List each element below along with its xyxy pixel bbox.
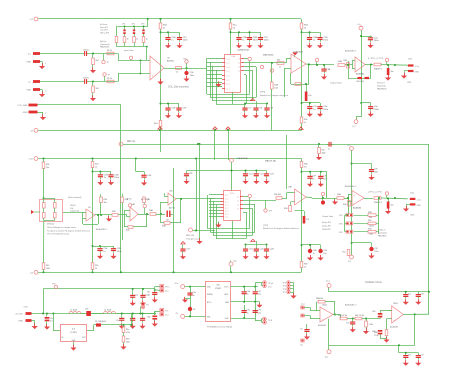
- svg-text:+Out: +Out: [415, 65, 420, 68]
- svg-text:R6A 10k: R6A 10k: [316, 297, 323, 300]
- svg-text:1u: 1u: [193, 295, 195, 297]
- svg-text:Output Gain: Output Gain: [330, 82, 343, 85]
- svg-text:C91: C91: [258, 291, 261, 293]
- svg-text:xx: xx: [237, 208, 239, 210]
- svg-text:ADA4084: ADA4084: [353, 207, 361, 210]
- svg-text:VIN-: VIN-: [207, 316, 211, 318]
- svg-text:xx_x: xx_x: [225, 207, 229, 209]
- svg-text:xx: xx: [237, 204, 239, 206]
- svg-text:[TP3]: [TP3]: [263, 225, 268, 227]
- svg-text:ADA4084-1: ADA4084-1: [96, 228, 108, 231]
- svg-text:100k: 100k: [46, 268, 50, 270]
- svg-text:R6b: R6b: [126, 339, 129, 341]
- svg-text:R5 1k: R5 1k: [107, 50, 112, 52]
- svg-text:2(on)-JP5: 2(on)-JP5: [322, 225, 332, 227]
- svg-text:R6B 97.6k: R6B 97.6k: [338, 315, 347, 317]
- svg-text:(Optional): (Optional): [377, 84, 386, 87]
- svg-text:R38: R38: [112, 211, 115, 213]
- svg-text:xx_x: xx_x: [225, 198, 229, 200]
- svg-text:GND: GND: [225, 302, 230, 304]
- svg-text:CN2: CN2: [410, 215, 415, 217]
- svg-text:C92: C92: [247, 310, 250, 312]
- svg-text:C5a: C5a: [50, 318, 53, 320]
- svg-text:1u: 1u: [313, 178, 315, 180]
- svg-text:(2-): (2-): [353, 126, 356, 128]
- svg-text:BYP+: BYP+: [207, 302, 212, 304]
- svg-text:R6?: R6?: [46, 265, 49, 267]
- svg-text:L1 10uH: L1 10uH: [70, 310, 78, 312]
- svg-text:10: 10: [304, 27, 306, 29]
- svg-text:U1B: U1B: [230, 193, 235, 195]
- svg-text:ADA4084-2: ADA4084-2: [345, 304, 357, 307]
- svg-text:REF (N): REF (N): [186, 235, 194, 237]
- svg-text:CLK_REF: CLK_REF: [18, 105, 29, 107]
- svg-text:100n: 100n: [117, 251, 123, 253]
- svg-text:xx: xx: [237, 200, 239, 202]
- svg-text:C7b: C7b: [421, 294, 424, 296]
- svg-text:C84 (1%): C84 (1%): [356, 81, 364, 83]
- svg-text:+Vs: +Vs: [357, 24, 361, 26]
- svg-text:C1F: C1F: [182, 108, 187, 110]
- svg-text:(1-): (1-): [300, 345, 303, 347]
- svg-text:C8c: C8c: [147, 292, 150, 294]
- svg-text:D1 CMDSH-3: D1 CMDSH-3: [95, 321, 106, 323]
- svg-text:R34: R34: [104, 199, 107, 201]
- svg-text:(Optional): (Optional): [100, 43, 110, 46]
- svg-text:COL_(Not mounted): COL_(Not mounted): [168, 86, 189, 89]
- svg-text:56k1: 56k1: [126, 341, 130, 343]
- svg-text:ADA4084-1: ADA4084-1: [345, 185, 357, 188]
- svg-text:+12-15V: +12-15V: [15, 314, 24, 316]
- svg-text:U4C: U4C: [169, 191, 173, 193]
- svg-text:1k: 1k: [127, 39, 129, 41]
- svg-text:BuiQ=+: BuiQ=+: [100, 41, 108, 43]
- svg-text:Offset Voltage for triangle wa: Offset Voltage for triangle wave.: [47, 226, 77, 229]
- svg-text:C7c: C7c: [300, 329, 303, 331]
- svg-text:AD8021: AD8021: [167, 59, 175, 62]
- svg-text:RvAC-O: RvAC-O: [378, 229, 386, 232]
- svg-text:C5e: C5e: [116, 320, 119, 322]
- svg-text:VIN+: VIN+: [207, 287, 211, 289]
- svg-text:2.2u: 2.2u: [258, 294, 262, 296]
- svg-text:(2+): (2+): [165, 314, 169, 316]
- svg-text:xx_x: xx_x: [226, 62, 230, 64]
- svg-text:GND: GND: [23, 112, 28, 114]
- svg-text:TP-B: TP-B: [268, 320, 273, 322]
- svg-text:ADA4084-1: ADA4084-1: [345, 50, 357, 53]
- svg-text:J: J: [45, 63, 46, 65]
- svg-text:ADA4084: ADA4084: [318, 324, 326, 327]
- svg-text:100n: 100n: [264, 40, 270, 42]
- svg-text:(2-): (2-): [348, 261, 351, 263]
- svg-text:OUT+: OUT+: [224, 287, 229, 289]
- svg-text:100n: 100n: [114, 177, 120, 179]
- svg-text:xx_x: xx_x: [225, 213, 229, 215]
- svg-text:R49: R49: [343, 204, 346, 206]
- svg-text:R2b: R2b: [304, 119, 307, 121]
- svg-text:R4A 49.9: R4A 49.9: [374, 68, 382, 71]
- svg-text:D2: D2: [193, 309, 195, 311]
- svg-text:GND: GND: [415, 72, 420, 74]
- svg-text:R5 1k: R5 1k: [107, 78, 112, 80]
- svg-text:PAD/M643: PAD/M643: [377, 87, 387, 90]
- svg-text:(2+): (2+): [326, 281, 330, 283]
- svg-text:R4C: R4C: [126, 230, 130, 232]
- svg-text:R5C: R5C: [368, 220, 372, 222]
- svg-text:(1%): (1%): [408, 59, 413, 61]
- svg-text:[VR(C)]: [VR(C)]: [47, 224, 54, 226]
- svg-text:xx_x: xx_x: [225, 210, 229, 212]
- svg-text:C1A 1u: C1A 1u: [83, 77, 89, 80]
- svg-text:U10: U10: [216, 285, 219, 287]
- svg-text:TP1a: TP1a: [183, 59, 187, 61]
- svg-text:2.2u: 2.2u: [258, 312, 262, 314]
- svg-text:xx_x: xx_x: [226, 70, 230, 72]
- svg-text:10u: 10u: [391, 205, 394, 207]
- svg-text:100n: 100n: [190, 75, 194, 77]
- svg-text:TPx: TPx: [165, 310, 168, 312]
- svg-text:TP7: TP7: [283, 292, 286, 294]
- svg-text:Output Gain: Output Gain: [322, 215, 334, 218]
- svg-text:JP2: JP2: [132, 24, 135, 26]
- svg-text:OUT: OUT: [82, 337, 86, 339]
- svg-text:R5D: R5D: [368, 228, 372, 230]
- svg-text:100k: 100k: [322, 152, 326, 154]
- svg-text:xx: xx: [238, 58, 240, 60]
- svg-text:xx_x: xx_x: [226, 83, 230, 85]
- svg-text:xx_x: xx_x: [225, 204, 229, 206]
- svg-text:MAX2K(B): MAX2K(B): [263, 54, 274, 57]
- svg-text:4.7u: 4.7u: [50, 321, 54, 323]
- svg-text:473k: 473k: [126, 332, 130, 334]
- svg-text:OUT-: OUT-: [225, 318, 230, 320]
- svg-text:+Out: +Out: [417, 199, 422, 202]
- svg-text:xx_x: xx_x: [225, 194, 229, 196]
- svg-text:GND: GND: [18, 321, 23, 323]
- svg-text:JP3: JP3: [141, 24, 144, 26]
- svg-text:100n: 100n: [374, 172, 378, 174]
- svg-text:1k: 1k: [279, 67, 281, 69]
- svg-text:0k07k: 0k07k: [369, 225, 374, 227]
- svg-text:C5c: C5c: [135, 295, 138, 297]
- svg-text:100n: 100n: [253, 40, 259, 42]
- svg-text:JP1: JP1: [122, 24, 125, 26]
- svg-text:AD7T2: AD7T2: [169, 207, 175, 210]
- svg-text:R39 4k5: R39 4k5: [274, 194, 281, 196]
- svg-text:+15v: +15v: [174, 283, 178, 285]
- svg-text:C9b: C9b: [247, 291, 250, 293]
- svg-text:C4c: C4c: [308, 95, 311, 97]
- svg-text:TP+A: TP+A: [268, 282, 274, 285]
- svg-text:1k: 1k: [304, 266, 306, 268]
- svg-text:C4A: C4A: [313, 36, 318, 39]
- svg-text:1k: 1k: [95, 268, 97, 270]
- svg-text:(2+): (2+): [268, 286, 272, 288]
- svg-text:+Vs: +Vs: [347, 145, 350, 147]
- svg-text:U1A: U1A: [231, 55, 236, 58]
- svg-text:-: -: [152, 61, 153, 64]
- svg-text:CN2: CN2: [407, 82, 412, 84]
- svg-text:R30: R30: [344, 60, 347, 62]
- svg-text:In-: In-: [28, 82, 31, 84]
- svg-text:GND: GND: [26, 90, 31, 92]
- svg-text:xx_x: xx_x: [226, 75, 230, 77]
- svg-text:10u: 10u: [391, 71, 394, 73]
- svg-text:(Optional): (Optional): [378, 231, 387, 234]
- svg-text:xx: xx: [237, 196, 239, 198]
- svg-text:Oscillator Circuit: Oscillator Circuit: [365, 281, 382, 284]
- svg-text:GND: GND: [417, 205, 422, 207]
- svg-text:1u: 1u: [313, 253, 315, 255]
- svg-text:Vbn=uP3: Vbn=uP3: [100, 32, 110, 34]
- svg-text:R4b: R4b: [277, 60, 280, 62]
- svg-text:POS&NEG LDO (LT3032): POS&NEG LDO (LT3032): [207, 327, 233, 329]
- svg-text:Un=uP1: Un=uP1: [100, 27, 109, 29]
- svg-text:1k: 1k: [95, 166, 97, 168]
- svg-text:1M: 1M: [95, 60, 98, 62]
- svg-text:Vs=uP2: Vs=uP2: [100, 30, 109, 32]
- svg-text:C2f: C2f: [306, 219, 309, 221]
- svg-text:1k: 1k: [146, 39, 148, 41]
- svg-text:C7d: C7d: [346, 323, 349, 325]
- svg-text:J: J: [45, 91, 46, 93]
- svg-text:IC5: IC5: [72, 329, 75, 331]
- svg-text:C2A: C2A: [242, 36, 247, 39]
- svg-text:C5A AD630A: C5A AD630A: [237, 49, 249, 52]
- svg-text:Monitor for 90 degree shifted: Monitor for 90 degree shifted reference: [263, 227, 300, 230]
- svg-text:500: 500: [369, 217, 372, 219]
- svg-text:1M: 1M: [95, 88, 98, 90]
- svg-text:R4c: R4c: [322, 150, 325, 152]
- svg-text:xx: xx: [238, 70, 240, 72]
- svg-text:100k-JP6: 100k-JP6: [322, 229, 331, 231]
- svg-text:100n: 100n: [374, 251, 378, 253]
- svg-text:TP3: TP3: [269, 211, 272, 213]
- svg-text:xx_x: xx_x: [226, 88, 230, 90]
- svg-text:(2+): (2+): [165, 291, 169, 293]
- svg-text:R6a: R6a: [126, 329, 129, 331]
- svg-text:Triangle wave: Triangle wave: [186, 238, 200, 241]
- svg-text:L2 10uH: L2 10uH: [104, 310, 112, 312]
- svg-text:TP6: TP6: [52, 284, 55, 286]
- svg-text:100k: 100k: [274, 87, 278, 89]
- svg-text:REF (A): REF (A): [127, 140, 136, 143]
- svg-text:10: 10: [233, 27, 235, 29]
- svg-text:TP5: TP5: [283, 286, 286, 288]
- svg-text:TP1, TP2 (Monitor pins): TP1, TP2 (Monitor pins): [47, 233, 69, 236]
- svg-text:MAX2K (B): MAX2K (B): [265, 160, 276, 163]
- svg-text:1u: 1u: [328, 149, 330, 151]
- svg-text:1k: 1k: [304, 122, 306, 124]
- svg-text:1u: 1u: [148, 294, 150, 296]
- svg-text:C5A AD630A: C5A AD630A: [237, 157, 249, 160]
- svg-text:GND: GND: [26, 62, 31, 64]
- svg-text:10k: 10k: [104, 202, 107, 204]
- svg-text:20k: 20k: [46, 167, 49, 169]
- svg-text:SET+: SET+: [224, 294, 229, 296]
- svg-text:100k: 100k: [369, 234, 373, 236]
- svg-text:(L-TP2) - (L-TP1): (L-TP2) - (L-TP1): [368, 58, 384, 60]
- svg-text:1k: 1k: [136, 39, 138, 41]
- svg-text:R5c: R5c: [343, 252, 346, 254]
- svg-text:ADA4084: ADA4084: [390, 326, 398, 329]
- svg-text:1k: 1k: [176, 72, 178, 74]
- svg-text:xx_x: xx_x: [225, 201, 229, 203]
- svg-text:U11B: U11B: [393, 303, 398, 305]
- svg-text:U11A: U11A: [322, 304, 327, 307]
- svg-text:U4: U4: [88, 207, 90, 209]
- svg-text:xx_x: xx_x: [226, 66, 230, 68]
- svg-text:C93: C93: [258, 310, 261, 312]
- svg-text:R1d: R1d: [154, 123, 157, 125]
- svg-text:C2b: C2b: [190, 72, 193, 74]
- svg-text:C7e: C7e: [408, 355, 411, 357]
- svg-text:LT3032: LT3032: [215, 288, 221, 290]
- svg-text:1%: 1%: [304, 166, 307, 168]
- svg-text:(2-): (2-): [325, 357, 328, 359]
- svg-text:SHDN+: SHDN+: [207, 294, 213, 296]
- svg-text:J: J: [45, 113, 46, 115]
- svg-text:R5b: R5b: [95, 265, 98, 267]
- svg-text:C8d: C8d: [147, 317, 150, 319]
- svg-text:(1+): (1+): [301, 304, 305, 306]
- svg-text:10n: 10n: [166, 220, 169, 222]
- svg-text:xx_x: xx_x: [226, 58, 230, 60]
- svg-text:TP4: TP4: [283, 283, 286, 285]
- svg-text:xx_x: xx_x: [226, 79, 230, 81]
- svg-text:R5A 49.9: R5A 49.9: [374, 201, 382, 204]
- svg-text:(-TP2) - (+TP2): (-TP2) - (+TP2): [368, 192, 382, 194]
- svg-text:100n: 100n: [323, 109, 329, 111]
- svg-text:10u: 10u: [323, 253, 326, 255]
- svg-text:1u: 1u: [247, 294, 249, 296]
- svg-text:100n: 100n: [374, 40, 380, 42]
- svg-text:xx: xx: [238, 62, 240, 64]
- svg-text:1.00k: 1.00k: [369, 324, 373, 326]
- svg-text:R4b: R4b: [304, 164, 307, 166]
- svg-text:C1A 1u: C1A 1u: [83, 49, 89, 52]
- svg-text:-: -: [293, 57, 294, 60]
- svg-text:TP6: TP6: [283, 289, 286, 291]
- svg-text:Input Gain: Input Gain: [124, 49, 134, 52]
- svg-text:R40: R40: [284, 208, 287, 210]
- svg-text:PAD5963: PAD5963: [100, 46, 110, 49]
- svg-text:PAD/M60: PAD/M60: [378, 234, 387, 237]
- svg-text:C7a: C7a: [408, 294, 411, 296]
- svg-text:C7f: C7f: [421, 355, 424, 357]
- svg-text:1u: 1u: [247, 312, 249, 314]
- svg-text:R35: R35: [147, 199, 150, 201]
- svg-text:xx: xx: [238, 66, 240, 68]
- svg-text:R2d: R2d: [95, 164, 98, 166]
- svg-text:1k: 1k: [163, 27, 165, 29]
- svg-text:(1%): (1%): [410, 193, 415, 195]
- svg-text:RivG-LO: RivG-LO: [377, 83, 385, 85]
- svg-text:VR(C): VR(C): [70, 205, 76, 207]
- svg-text:LT7801: LT7801: [70, 332, 76, 334]
- svg-text:In-Gain: In-Gain: [100, 24, 108, 26]
- svg-text:[TP3]: [TP3]: [260, 92, 265, 94]
- svg-text:ADA4084: ADA4084: [356, 73, 364, 76]
- svg-text:To obtain a perfect 90 degree: To obtain a perfect 90 degree shifted re…: [47, 229, 91, 232]
- svg-text:xx_x: xx_x: [225, 216, 229, 218]
- svg-text:(Not mounted): (Not mounted): [68, 196, 82, 199]
- svg-text:100n: 100n: [323, 40, 329, 42]
- svg-text:C5b: C5b: [85, 309, 88, 311]
- svg-text:100n: 100n: [374, 109, 380, 111]
- svg-text:100n: 100n: [183, 40, 189, 42]
- svg-text:97.6k: 97.6k: [374, 335, 378, 337]
- svg-text:0(on)-JP4: 0(on)-JP4: [322, 222, 332, 224]
- svg-text:R6C 95.3k: R6C 95.3k: [355, 315, 364, 317]
- svg-text:C1E: C1E: [171, 108, 176, 110]
